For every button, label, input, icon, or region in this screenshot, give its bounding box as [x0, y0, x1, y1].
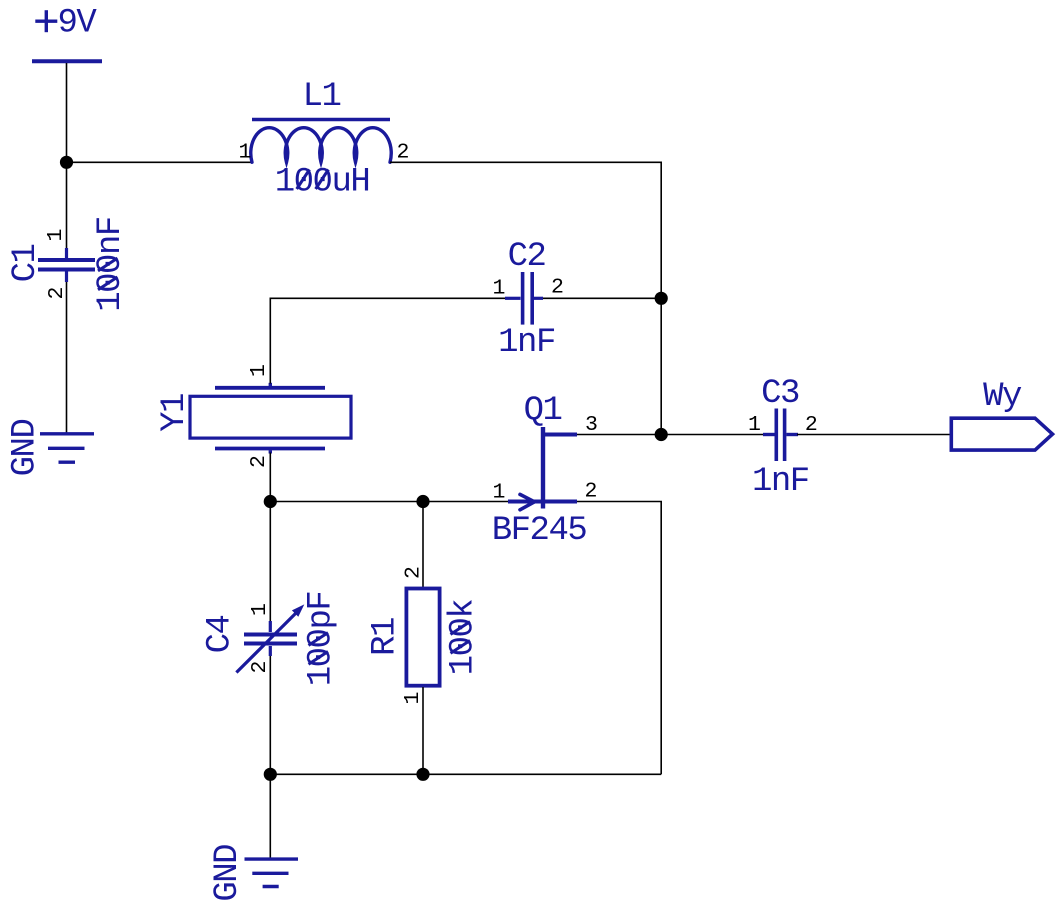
capacitor C1 [38, 248, 95, 282]
svg-text:C1: C1 [7, 245, 45, 283]
wire Y1 pin 2 to node D [269, 453, 271, 502]
node G junction [416, 768, 429, 781]
resistor R1 [406, 589, 439, 686]
svg-text:1nF: 1nF [498, 324, 555, 362]
svg-text:100nF: 100nF [92, 217, 130, 312]
svg-text:1: 1 [248, 603, 272, 616]
svg-text:2: 2 [45, 287, 69, 300]
svg-text:1nF: 1nF [752, 463, 809, 501]
GND1 label [7, 420, 45, 477]
wire Q1 pin 3 to C3 pin 1 [577, 434, 763, 436]
R1 reference label [367, 618, 405, 656]
variable capacitor C4 [236, 604, 304, 672]
svg-text:1: 1 [401, 692, 425, 705]
wire C1 pin 2 to GND1 [66, 282, 68, 433]
output port Wy [951, 378, 1052, 450]
svg-text:2: 2 [585, 480, 598, 504]
svg-text:C2: C2 [508, 238, 546, 276]
R1 pin 2 number [402, 566, 426, 579]
wire node B to node C [660, 298, 662, 434]
crystal Y1 [190, 383, 351, 454]
C4 pin 2 number [248, 661, 272, 674]
inductor L1 [251, 78, 392, 162]
svg-text:2: 2 [397, 141, 410, 165]
Y1 pin 1 number [247, 364, 271, 377]
svg-text:GND: GND [209, 845, 247, 902]
C1 pin 2 number [45, 287, 69, 300]
svg-text:100uH: 100uH [275, 164, 370, 202]
C1 reference label [7, 245, 45, 283]
C4 reference label [202, 616, 240, 654]
GND2 label [209, 845, 247, 902]
ground GND1 [40, 434, 94, 462]
svg-text:9V: 9V [57, 5, 97, 43]
ground GND2 [245, 859, 299, 886]
C1 value 100nF [92, 217, 130, 312]
capacitor C2 [505, 272, 543, 325]
svg-text:GND: GND [7, 420, 45, 477]
power symbol +9V [32, 5, 102, 62]
transistor Q1 [508, 427, 577, 510]
svg-text:BF245: BF245 [492, 512, 587, 550]
svg-text:1: 1 [239, 141, 252, 165]
node A junction [60, 156, 73, 169]
svg-text:100k: 100k [445, 600, 483, 676]
svg-text:1: 1 [44, 229, 68, 242]
wire +9V to node A [66, 63, 68, 162]
svg-text:1: 1 [247, 364, 271, 377]
svg-text:Y1: Y1 [156, 394, 194, 432]
node D junction [264, 495, 277, 508]
C4 pin 1 number [248, 603, 272, 616]
wire bottom rail [270, 773, 661, 775]
wire Q1 pin 2 to bottom rail [577, 502, 661, 775]
capacitor C3 [763, 409, 798, 462]
svg-text:2: 2 [551, 276, 564, 300]
svg-text:2: 2 [248, 661, 272, 674]
svg-text:Wy: Wy [983, 378, 1022, 416]
svg-text:R1: R1 [367, 618, 405, 656]
svg-text:2: 2 [247, 455, 271, 468]
node F junction [264, 768, 277, 781]
svg-text:3: 3 [585, 413, 598, 437]
node C junction [655, 428, 668, 441]
Y1 reference label [156, 394, 194, 432]
svg-text:L1: L1 [303, 78, 341, 116]
svg-text:1: 1 [748, 413, 761, 437]
svg-text:1: 1 [493, 277, 506, 301]
wire node A to L1 pin 1 [67, 161, 253, 163]
svg-text:2: 2 [402, 566, 426, 579]
wire node A to C1 pin 1 [66, 162, 68, 249]
svg-text:2: 2 [805, 413, 818, 437]
C1 pin 1 number [44, 229, 68, 242]
wire node E to R1 pin 2 [422, 502, 424, 588]
wire R1 pin 1 to node G [422, 687, 424, 774]
L1 value 100uH [275, 164, 370, 202]
svg-text:C3: C3 [761, 375, 799, 413]
wire node D to C4 pin 1 [269, 502, 271, 622]
wire node F to GND2 [269, 774, 271, 858]
wire C2 pin 2 to node B [543, 297, 661, 299]
svg-text:100pF: 100pF [303, 592, 341, 687]
svg-text:Q1: Q1 [524, 392, 562, 430]
C4 value 100pF [303, 592, 341, 687]
wire gate row Y1/C4/R1 to Q1 pin 1 [270, 501, 508, 503]
wire C4 pin 2 to node F [269, 656, 271, 774]
node E junction [416, 495, 429, 508]
wire L1 pin 2 to node B [390, 162, 661, 298]
R1 pin 1 number [401, 692, 425, 705]
node B junction [655, 292, 668, 305]
R1 value 100k [445, 600, 483, 676]
svg-text:C4: C4 [202, 616, 240, 654]
wire C3 pin 2 to Wy [797, 434, 951, 436]
Y1 pin 2 number [247, 455, 271, 468]
wire Y1 pin 1 to C2 pin 1 [270, 298, 505, 383]
